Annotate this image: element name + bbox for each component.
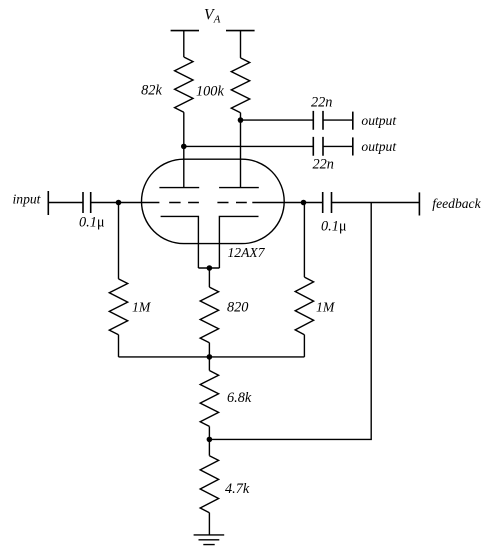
cathode join bar	[198, 267, 219, 269]
right grid (dashed)	[217, 202, 246, 204]
node feedback tap	[207, 437, 213, 443]
wire 1M right to bus	[303, 335, 305, 357]
wire VA left to R 82k	[183, 31, 185, 57]
resistor 100k	[231, 58, 249, 113]
svg-text:0.1μ: 0.1μ	[79, 215, 105, 231]
node bus	[207, 354, 213, 360]
resistor 1M left	[109, 279, 127, 335]
svg-text:input: input	[13, 191, 42, 206]
capacitor 0.1u feedback	[323, 192, 332, 213]
left anode plate	[159, 187, 199, 189]
wire bus to 6.8k	[208, 357, 210, 371]
terminal output bottom	[352, 137, 354, 155]
svg-text:6.8k: 6.8k	[227, 390, 252, 406]
tube 12AX7 envelope	[142, 159, 285, 243]
wire node down to 1M right	[303, 203, 306, 278]
svg-text:100k: 100k	[196, 84, 224, 100]
right cathode	[219, 216, 258, 268]
svg-text:A: A	[213, 14, 221, 26]
terminal input	[47, 191, 49, 215]
capacitor 22n bottom	[313, 137, 323, 156]
supply rail VA right bar	[226, 30, 255, 32]
wire cap to output terminal top	[323, 119, 353, 121]
svg-text:22n: 22n	[311, 95, 332, 111]
wire node down to 1M left	[118, 203, 120, 279]
svg-text:1M: 1M	[132, 300, 152, 315]
svg-text:feedback: feedback	[432, 196, 481, 211]
left cathode	[161, 216, 199, 268]
wire 4.7k to ground	[208, 513, 210, 535]
wire 6.8k to node	[208, 426, 210, 439]
right anode plate	[219, 187, 259, 189]
wire VA right to R 100k	[240, 31, 242, 58]
node input grid	[116, 200, 122, 206]
wire 820 to bus	[208, 343, 210, 357]
node left plate / bottom output	[181, 144, 187, 150]
resistor 82k	[175, 57, 193, 112]
resistor 820	[200, 287, 218, 343]
feedback return wire	[209, 203, 371, 440]
resistor 4.7k	[200, 456, 218, 513]
svg-text:4.7k: 4.7k	[225, 481, 250, 497]
svg-text:0.1μ: 0.1μ	[321, 218, 347, 234]
wire to top output cap	[241, 119, 314, 121]
svg-text:82k: 82k	[141, 83, 162, 99]
terminal output top	[352, 112, 354, 130]
capacitor 0.1u input	[83, 192, 91, 213]
bus bar	[119, 356, 305, 358]
wire to bottom output cap	[184, 145, 313, 147]
left grid (dashed)	[169, 202, 199, 204]
ground	[194, 535, 225, 545]
wire cap to feedback terminal	[332, 202, 420, 204]
wire cap to output terminal bottom	[323, 145, 353, 147]
resistor 1M right	[295, 277, 313, 335]
svg-text:output: output	[361, 113, 397, 128]
terminal feedback	[418, 192, 420, 215]
svg-text:1M: 1M	[316, 300, 336, 315]
svg-text:12AX7: 12AX7	[228, 245, 266, 260]
wire right grid to cap	[252, 202, 322, 204]
node feedback grid	[301, 200, 307, 206]
node cathode junction	[207, 265, 213, 271]
supply rail VA left bar	[171, 30, 199, 32]
wire cap to grid node	[91, 202, 160, 204]
node right plate / top output	[238, 117, 244, 123]
svg-text:820: 820	[227, 299, 248, 315]
wire 82k bottom to left anode	[183, 112, 185, 187]
capacitor 22n top	[313, 111, 323, 130]
wire 1M left to bus	[118, 335, 120, 357]
resistor 6.8k	[200, 371, 218, 427]
wire node to 4.7k	[208, 439, 210, 455]
svg-text:22n: 22n	[313, 156, 334, 172]
wire 100k bottom to right anode	[240, 113, 242, 188]
svg-text:output: output	[361, 139, 397, 154]
wire cathode to 820	[208, 268, 210, 287]
wire input to cap	[48, 202, 83, 204]
